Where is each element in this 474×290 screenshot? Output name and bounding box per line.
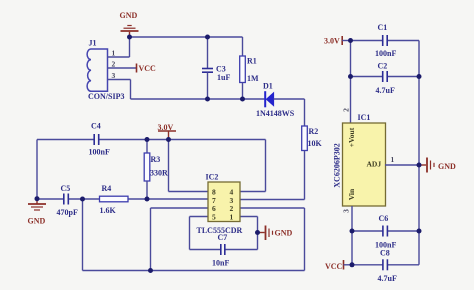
svg-text:CON/SIP3: CON/SIP3 (88, 92, 124, 101)
svg-text:R1: R1 (247, 57, 257, 66)
pin 2 of J1 (108, 59, 137, 68)
svg-text:5: 5 (212, 213, 216, 222)
wire C1 row (351, 40, 383, 42)
svg-text:XC6206P302: XC6206P302 (332, 143, 341, 187)
junction: IC2 pin1 loop / GND stub (255, 230, 260, 235)
svg-text:3: 3 (112, 71, 116, 80)
resistor R2 (302, 99, 323, 200)
junction: R1 bottom on bottom rail (240, 97, 245, 102)
svg-text:J1: J1 (89, 39, 97, 48)
capacitor C5 (57, 184, 78, 217)
svg-text:4.7uF: 4.7uF (378, 274, 397, 283)
wire 3.0V rail (37, 139, 94, 141)
junction: C6 right on right rail (417, 229, 422, 234)
diode D1 (256, 81, 305, 118)
svg-text:1M: 1M (247, 74, 259, 83)
wire IC1 pin1 ADJ to rail (385, 155, 419, 165)
svg-text:C7: C7 (218, 233, 228, 242)
power port 3.0V mid (158, 123, 177, 138)
svg-text:D1: D1 (263, 81, 273, 90)
svg-text:1N4148WS: 1N4148WS (256, 109, 295, 118)
svg-text:GND: GND (275, 229, 293, 238)
svg-text:R3: R3 (151, 155, 161, 164)
power port GND at C7 (258, 226, 293, 241)
svg-text:ADJ: ADJ (367, 159, 382, 168)
svg-text:Vin: Vin (347, 188, 356, 200)
wire C7 to IC2 pin1 (225, 217, 258, 250)
wire GND junction down to J1 pin1 (129, 37, 131, 57)
pin 1 of J1 (108, 48, 130, 57)
power port VCC at J1 pin 2 (137, 64, 157, 74)
svg-text:1: 1 (391, 155, 395, 164)
wire C8 row (352, 264, 383, 266)
capacitor C7 (212, 233, 229, 267)
svg-text:C4: C4 (91, 122, 101, 131)
svg-text:R2: R2 (309, 127, 319, 136)
junction: C3 top on top rail (205, 35, 210, 40)
resistor R3 (144, 140, 168, 200)
capacitor C2 (376, 62, 395, 95)
junction: GND / J1 pin1 / top rail (127, 35, 132, 40)
junction: IC2 pin6 branch on bottom bus (148, 268, 153, 273)
wire IC1 pin3 Vin down (351, 206, 353, 231)
svg-text:2: 2 (112, 59, 116, 68)
wire rail down-left to C5 row (36, 140, 38, 199)
capacitor C1 (375, 23, 396, 58)
junction: R3 top on 3.0V rail (145, 137, 150, 142)
svg-text:C1: C1 (378, 23, 388, 32)
wire right rail (418, 41, 420, 265)
wire C5 branch down to bottom bus (82, 199, 84, 271)
wire rail right end down to IC2 pin 4 (240, 140, 266, 192)
svg-text:4.7uF: 4.7uF (376, 86, 395, 95)
svg-text:VCC: VCC (139, 64, 157, 73)
svg-text:330R: 330R (150, 169, 168, 178)
wire top rail (130, 36, 243, 38)
svg-text:1.6K: 1.6K (100, 206, 117, 215)
IC IC1 XC6206P302 (332, 108, 385, 213)
svg-text:VCC: VCC (325, 262, 343, 271)
svg-text:1: 1 (112, 48, 116, 57)
svg-text:1uF: 1uF (217, 73, 230, 82)
svg-text:3: 3 (341, 209, 350, 213)
wire R2 bottom to IC2 pin 3 (240, 199, 305, 201)
wire IC2 pin2 to bottom bus (240, 208, 305, 271)
svg-text:IC1: IC1 (358, 113, 371, 122)
wire IC2 pin5 loop to C7 (190, 217, 221, 250)
wire 3.0V junction down to IC2 pin 8 (169, 140, 209, 192)
junction: 3.0V right port / C1 / IC1 Vout (348, 38, 353, 43)
power port 3.0V right (324, 36, 351, 46)
wire bottom bus (83, 270, 305, 272)
junction: C2 left / IC1 Vout column (348, 74, 353, 79)
svg-text:R4: R4 (102, 184, 112, 193)
junction: C5 / R4 / bottom-bus branch (80, 197, 85, 202)
junction: IC1 ADJ / right rail / GND stub (417, 163, 422, 168)
wire J1 pin3 down to bottom rail (130, 80, 132, 100)
IC IC2 TLC555CDR (197, 172, 243, 235)
svg-text:C2: C2 (378, 62, 388, 71)
capacitor C3 (202, 37, 230, 99)
wire IC2 pin6 to bottom bus (151, 208, 209, 271)
svg-text:3.0V: 3.0V (324, 37, 340, 46)
junction: 3.0V port stub on rail (166, 137, 171, 142)
wire Vin junction down to VCC row (351, 231, 353, 265)
svg-text:C6: C6 (379, 214, 389, 223)
junction: R3 bottom / R4 / IC2 pin7 (145, 197, 150, 202)
wire C5/R4 row (37, 198, 64, 200)
svg-text:GND: GND (438, 162, 456, 171)
power port GND top (120, 11, 139, 37)
power port VCC right (325, 260, 352, 271)
svg-text:470pF: 470pF (57, 208, 78, 217)
junction: VCC port / C8 left (350, 262, 355, 267)
wire C2 row (351, 76, 383, 78)
svg-text:IC2: IC2 (206, 172, 219, 181)
svg-text:1: 1 (230, 213, 234, 222)
capacitor C6 (375, 214, 396, 249)
junction: C2 right on right rail (417, 74, 422, 79)
wire 3.0V junction down to IC1 Vout (350, 41, 352, 124)
svg-text:100nF: 100nF (89, 148, 110, 157)
connector J1 (87, 39, 124, 102)
junction: C3 bottom on bottom rail (205, 97, 210, 102)
power port GND at IC1 (419, 158, 456, 173)
resistor R1 (240, 37, 259, 99)
svg-text:GND: GND (28, 217, 46, 226)
junction: IC1 Vin / C6 left (350, 229, 355, 234)
svg-text:C5: C5 (61, 184, 71, 193)
capacitor C8 (378, 249, 397, 283)
resistor R4 (100, 184, 129, 215)
svg-text:100nF: 100nF (375, 49, 396, 58)
wire bottom rail (131, 98, 265, 100)
svg-text:GND: GND (120, 11, 138, 20)
svg-text:+Vout: +Vout (347, 127, 356, 147)
svg-text:10K: 10K (308, 139, 323, 148)
capacitor C4 (89, 122, 110, 157)
svg-text:10nF: 10nF (212, 258, 229, 267)
svg-text:C8: C8 (380, 249, 390, 258)
svg-text:2: 2 (341, 108, 350, 112)
junction: GND node at C5 row (35, 196, 40, 201)
power port GND left (28, 199, 47, 226)
pin 3 of J1 (108, 71, 131, 80)
wire C6 row (352, 230, 383, 232)
